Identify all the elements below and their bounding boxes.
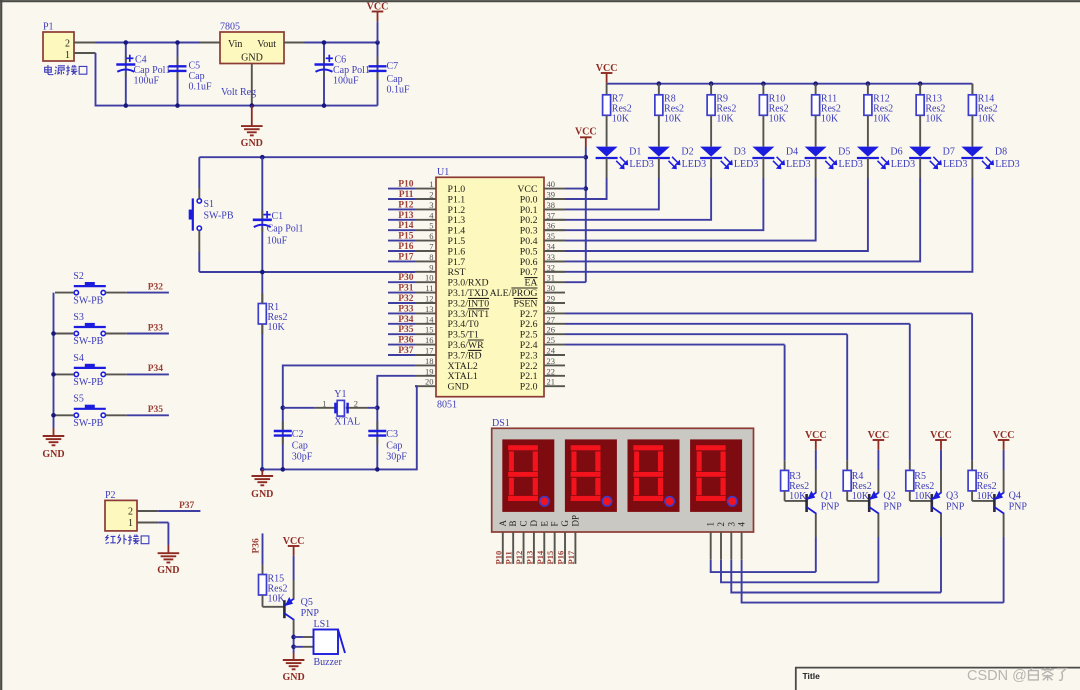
svg-text:P0.6: P0.6	[520, 257, 538, 268]
svg-text:C3: C3	[386, 429, 398, 440]
svg-text:Q5: Q5	[301, 597, 313, 608]
svg-text:C5: C5	[189, 61, 201, 72]
svg-text:C4: C4	[135, 55, 147, 66]
svg-text:Volt Reg: Volt Reg	[221, 87, 256, 98]
svg-text:GND: GND	[251, 489, 273, 500]
svg-text:G: G	[560, 520, 570, 527]
svg-text:P0.2: P0.2	[520, 215, 538, 226]
svg-text:VCC: VCC	[517, 184, 537, 195]
svg-text:C: C	[519, 520, 529, 526]
svg-text:13: 13	[425, 304, 434, 314]
svg-text:Vout: Vout	[257, 39, 276, 50]
svg-text:11: 11	[425, 283, 433, 293]
svg-text:D3: D3	[734, 147, 746, 158]
svg-text:3: 3	[726, 522, 736, 527]
svg-text:E: E	[539, 521, 549, 527]
svg-text:12: 12	[425, 294, 434, 304]
svg-text:D4: D4	[786, 147, 798, 158]
svg-text:GND: GND	[282, 672, 304, 683]
svg-text:D5: D5	[838, 147, 850, 158]
svg-text:P35: P35	[398, 325, 414, 335]
svg-text:8051: 8051	[437, 400, 457, 411]
svg-text:1: 1	[706, 522, 716, 527]
svg-text:CSDN @: CSDN @	[967, 668, 1027, 684]
svg-text:P11: P11	[504, 551, 514, 564]
svg-text:7: 7	[429, 242, 433, 252]
svg-text:S1: S1	[204, 199, 215, 210]
svg-text:9: 9	[429, 262, 433, 272]
svg-text:P1.1: P1.1	[448, 194, 466, 205]
svg-text:P13: P13	[398, 211, 414, 221]
svg-text:0.1uF: 0.1uF	[189, 82, 213, 93]
svg-text:DP: DP	[570, 515, 580, 527]
svg-text:P0.7: P0.7	[520, 267, 538, 278]
svg-text:10K: 10K	[978, 114, 996, 125]
svg-text:30pF: 30pF	[292, 452, 313, 463]
svg-text:P36: P36	[398, 336, 414, 346]
svg-text:8: 8	[429, 252, 433, 262]
svg-text:LED3: LED3	[995, 159, 1019, 170]
svg-text:Cap: Cap	[387, 74, 403, 85]
svg-text:31: 31	[547, 273, 556, 283]
svg-text:19: 19	[425, 366, 434, 376]
svg-text:P0.4: P0.4	[520, 236, 538, 247]
svg-text:6: 6	[429, 231, 433, 241]
svg-text:14: 14	[425, 314, 434, 324]
svg-text:B: B	[508, 520, 518, 526]
svg-text:SW-PB: SW-PB	[73, 336, 103, 347]
svg-text:P2.2: P2.2	[520, 361, 538, 372]
svg-text:XTAL1: XTAL1	[448, 371, 478, 382]
svg-text:S3: S3	[73, 312, 84, 323]
svg-text:XTAL: XTAL	[334, 417, 360, 428]
svg-text:P30: P30	[398, 273, 414, 283]
svg-text:2: 2	[354, 399, 358, 409]
svg-text:P1.6: P1.6	[448, 246, 466, 257]
svg-text:P3.0/RXD: P3.0/RXD	[448, 278, 489, 289]
svg-text:P1: P1	[43, 22, 54, 33]
svg-text:10uF: 10uF	[267, 236, 288, 247]
svg-text:D: D	[529, 520, 539, 527]
svg-text:1: 1	[429, 179, 433, 189]
svg-text:SW-PB: SW-PB	[204, 211, 234, 222]
svg-text:23: 23	[547, 356, 556, 366]
svg-text:LED3: LED3	[943, 159, 967, 170]
svg-text:10K: 10K	[821, 114, 839, 125]
svg-text:P1.3: P1.3	[448, 215, 466, 226]
svg-text:P1.2: P1.2	[448, 205, 466, 216]
svg-text:P2: P2	[105, 490, 116, 501]
svg-text:32: 32	[547, 262, 556, 272]
svg-text:P0.0: P0.0	[520, 194, 538, 205]
svg-text:P16: P16	[398, 242, 414, 252]
svg-text:27: 27	[547, 314, 556, 324]
svg-text:SW-PB: SW-PB	[73, 418, 103, 429]
svg-text:D6: D6	[890, 147, 902, 158]
svg-text:P17: P17	[566, 550, 576, 564]
svg-text:P2.0: P2.0	[520, 382, 538, 393]
svg-text:C6: C6	[335, 55, 347, 66]
svg-text:SW-PB: SW-PB	[73, 377, 103, 388]
svg-text:GND: GND	[157, 565, 179, 576]
svg-text:Cap Pol1: Cap Pol1	[333, 65, 370, 76]
svg-text:P13: P13	[524, 551, 534, 565]
svg-text:P10: P10	[493, 551, 503, 565]
svg-text:100uF: 100uF	[134, 76, 160, 87]
svg-text:38: 38	[547, 200, 556, 210]
svg-text:D8: D8	[995, 147, 1007, 158]
svg-text:37: 37	[547, 210, 556, 220]
svg-text:36: 36	[547, 221, 556, 231]
svg-text:VCC: VCC	[575, 127, 597, 138]
svg-text:P14: P14	[398, 221, 414, 231]
svg-text:P17: P17	[398, 252, 414, 262]
svg-text:LED3: LED3	[682, 159, 706, 170]
svg-text:P2.1: P2.1	[520, 371, 538, 382]
svg-text:10K: 10K	[268, 594, 286, 605]
svg-text:P3.1/TXD: P3.1/TXD	[448, 288, 489, 299]
svg-text:P32: P32	[148, 282, 164, 292]
svg-text:LED3: LED3	[786, 159, 810, 170]
svg-text:16: 16	[425, 335, 434, 345]
svg-text:Q4: Q4	[1009, 491, 1021, 502]
svg-text:P35: P35	[148, 405, 164, 415]
svg-text:35: 35	[547, 231, 556, 241]
svg-text:Cap: Cap	[292, 441, 308, 452]
svg-text:Q1: Q1	[821, 491, 833, 502]
svg-text:P2.4: P2.4	[520, 340, 538, 351]
svg-text:LED3: LED3	[629, 159, 653, 170]
svg-text:P12: P12	[514, 551, 524, 565]
svg-text:17: 17	[425, 346, 434, 356]
svg-text:100uF: 100uF	[333, 76, 359, 87]
svg-text:P36: P36	[252, 538, 262, 554]
svg-text:2: 2	[716, 522, 726, 527]
svg-text:LS1: LS1	[314, 619, 331, 630]
svg-text:LED3: LED3	[734, 159, 758, 170]
svg-text:26: 26	[547, 325, 556, 335]
svg-text:ALE/PROG: ALE/PROG	[490, 288, 538, 299]
svg-text:C2: C2	[292, 429, 304, 440]
svg-text:S4: S4	[73, 353, 84, 364]
svg-text:U1: U1	[437, 167, 449, 178]
svg-text:P33: P33	[148, 323, 164, 333]
svg-text:Title: Title	[803, 671, 821, 681]
svg-text:Vin: Vin	[228, 39, 242, 50]
svg-text:S5: S5	[73, 394, 84, 405]
svg-text:25: 25	[547, 335, 556, 345]
svg-text:LED3: LED3	[838, 159, 862, 170]
svg-text:39: 39	[547, 190, 556, 200]
svg-text:F: F	[550, 521, 560, 526]
svg-text:7805: 7805	[220, 22, 240, 33]
svg-text:P0.3: P0.3	[520, 226, 538, 237]
svg-text:10K: 10K	[268, 322, 286, 333]
svg-text:P3.2/INT0: P3.2/INT0	[448, 298, 490, 309]
svg-text:P32: P32	[398, 294, 414, 304]
svg-text:Cap: Cap	[386, 441, 402, 452]
svg-text:Buzzer: Buzzer	[314, 657, 343, 668]
svg-text:LED3: LED3	[891, 159, 915, 170]
svg-text:10K: 10K	[716, 114, 734, 125]
svg-text:GND: GND	[42, 449, 64, 460]
svg-text:P37: P37	[179, 501, 195, 511]
svg-text:D2: D2	[681, 147, 693, 158]
svg-text:P37: P37	[398, 346, 414, 356]
svg-text:P11: P11	[399, 190, 414, 200]
svg-text:18: 18	[425, 356, 434, 366]
svg-text:P1.0: P1.0	[448, 184, 466, 195]
svg-text:Q3: Q3	[946, 491, 958, 502]
svg-text:P15: P15	[398, 232, 414, 242]
svg-text:10K: 10K	[612, 114, 630, 125]
svg-text:PNP: PNP	[821, 502, 840, 513]
svg-text:28: 28	[547, 304, 556, 314]
svg-text:40: 40	[547, 179, 556, 189]
svg-text:PSEN: PSEN	[514, 298, 538, 309]
svg-text:C7: C7	[387, 61, 399, 72]
svg-text:SW-PB: SW-PB	[73, 295, 103, 306]
svg-text:3: 3	[429, 200, 433, 210]
svg-text:P10: P10	[398, 180, 414, 190]
svg-text:C1: C1	[272, 211, 284, 222]
svg-text:P2.6: P2.6	[520, 319, 538, 330]
svg-text:P2.7: P2.7	[520, 309, 538, 320]
svg-text:21: 21	[547, 377, 556, 387]
svg-text:D7: D7	[943, 147, 955, 158]
svg-text:30pF: 30pF	[386, 452, 407, 463]
svg-text:P1.7: P1.7	[448, 257, 466, 268]
svg-text:GND: GND	[448, 382, 469, 393]
svg-text:Q2: Q2	[883, 491, 895, 502]
svg-text:4: 4	[737, 522, 747, 527]
svg-text:P3.4/T0: P3.4/T0	[448, 319, 479, 330]
svg-text:Cap Pol1: Cap Pol1	[134, 65, 171, 76]
svg-text:D1: D1	[629, 147, 641, 158]
svg-text:P3.5/T1: P3.5/T1	[448, 330, 479, 341]
svg-text:1: 1	[128, 518, 133, 529]
svg-text:P34: P34	[398, 315, 414, 325]
svg-text:5: 5	[429, 221, 433, 231]
svg-text:P34: P34	[148, 364, 164, 374]
svg-text:Cap Pol1: Cap Pol1	[267, 224, 304, 235]
svg-text:P14: P14	[535, 550, 545, 564]
svg-text:10K: 10K	[664, 114, 682, 125]
svg-text:10: 10	[425, 273, 434, 283]
svg-text:P33: P33	[398, 304, 414, 314]
svg-text:P31: P31	[398, 284, 414, 294]
svg-text:20: 20	[425, 377, 434, 387]
svg-text:29: 29	[547, 294, 556, 304]
svg-text:0.1uF: 0.1uF	[387, 85, 411, 96]
svg-text:S2: S2	[73, 271, 84, 282]
svg-text:Cap: Cap	[189, 71, 205, 82]
svg-text:PNP: PNP	[301, 608, 320, 619]
svg-text:EA: EA	[524, 278, 537, 289]
svg-text:2: 2	[429, 190, 433, 200]
svg-text:RST: RST	[448, 267, 466, 278]
svg-text:A: A	[498, 520, 508, 527]
svg-text:P16: P16	[556, 551, 566, 565]
svg-text:30: 30	[547, 283, 556, 293]
svg-text:PNP: PNP	[1009, 502, 1028, 513]
svg-text:Y1: Y1	[334, 389, 346, 400]
svg-text:P1.5: P1.5	[448, 236, 466, 247]
svg-text:GND: GND	[241, 53, 263, 64]
svg-text:34: 34	[547, 242, 556, 252]
svg-text:22: 22	[547, 366, 556, 376]
svg-text:33: 33	[547, 252, 556, 262]
svg-text:P2.3: P2.3	[520, 350, 538, 361]
svg-text:P2.5: P2.5	[520, 330, 538, 341]
svg-text:10K: 10K	[873, 114, 891, 125]
svg-text:P3.7/RD: P3.7/RD	[448, 350, 482, 361]
svg-text:GND: GND	[241, 138, 263, 149]
svg-text:PNP: PNP	[946, 502, 965, 513]
svg-text:1: 1	[322, 399, 326, 409]
svg-text:24: 24	[547, 346, 556, 356]
svg-text:10K: 10K	[925, 114, 943, 125]
svg-text:P3.3/INT1: P3.3/INT1	[448, 309, 490, 320]
svg-text:2: 2	[65, 39, 70, 50]
svg-text:P12: P12	[398, 200, 414, 210]
svg-text:15: 15	[425, 325, 434, 335]
svg-text:10K: 10K	[769, 114, 787, 125]
svg-text:PNP: PNP	[883, 502, 902, 513]
svg-text:1: 1	[65, 50, 70, 61]
svg-text:2: 2	[128, 507, 133, 518]
svg-text:DS1: DS1	[492, 418, 510, 429]
svg-text:P15: P15	[545, 551, 555, 565]
svg-text:P0.5: P0.5	[520, 246, 538, 257]
svg-text:P0.1: P0.1	[520, 205, 538, 216]
svg-text:XTAL2: XTAL2	[448, 361, 478, 372]
svg-text:P1.4: P1.4	[448, 226, 466, 237]
svg-text:P3.6/WR: P3.6/WR	[448, 340, 485, 351]
